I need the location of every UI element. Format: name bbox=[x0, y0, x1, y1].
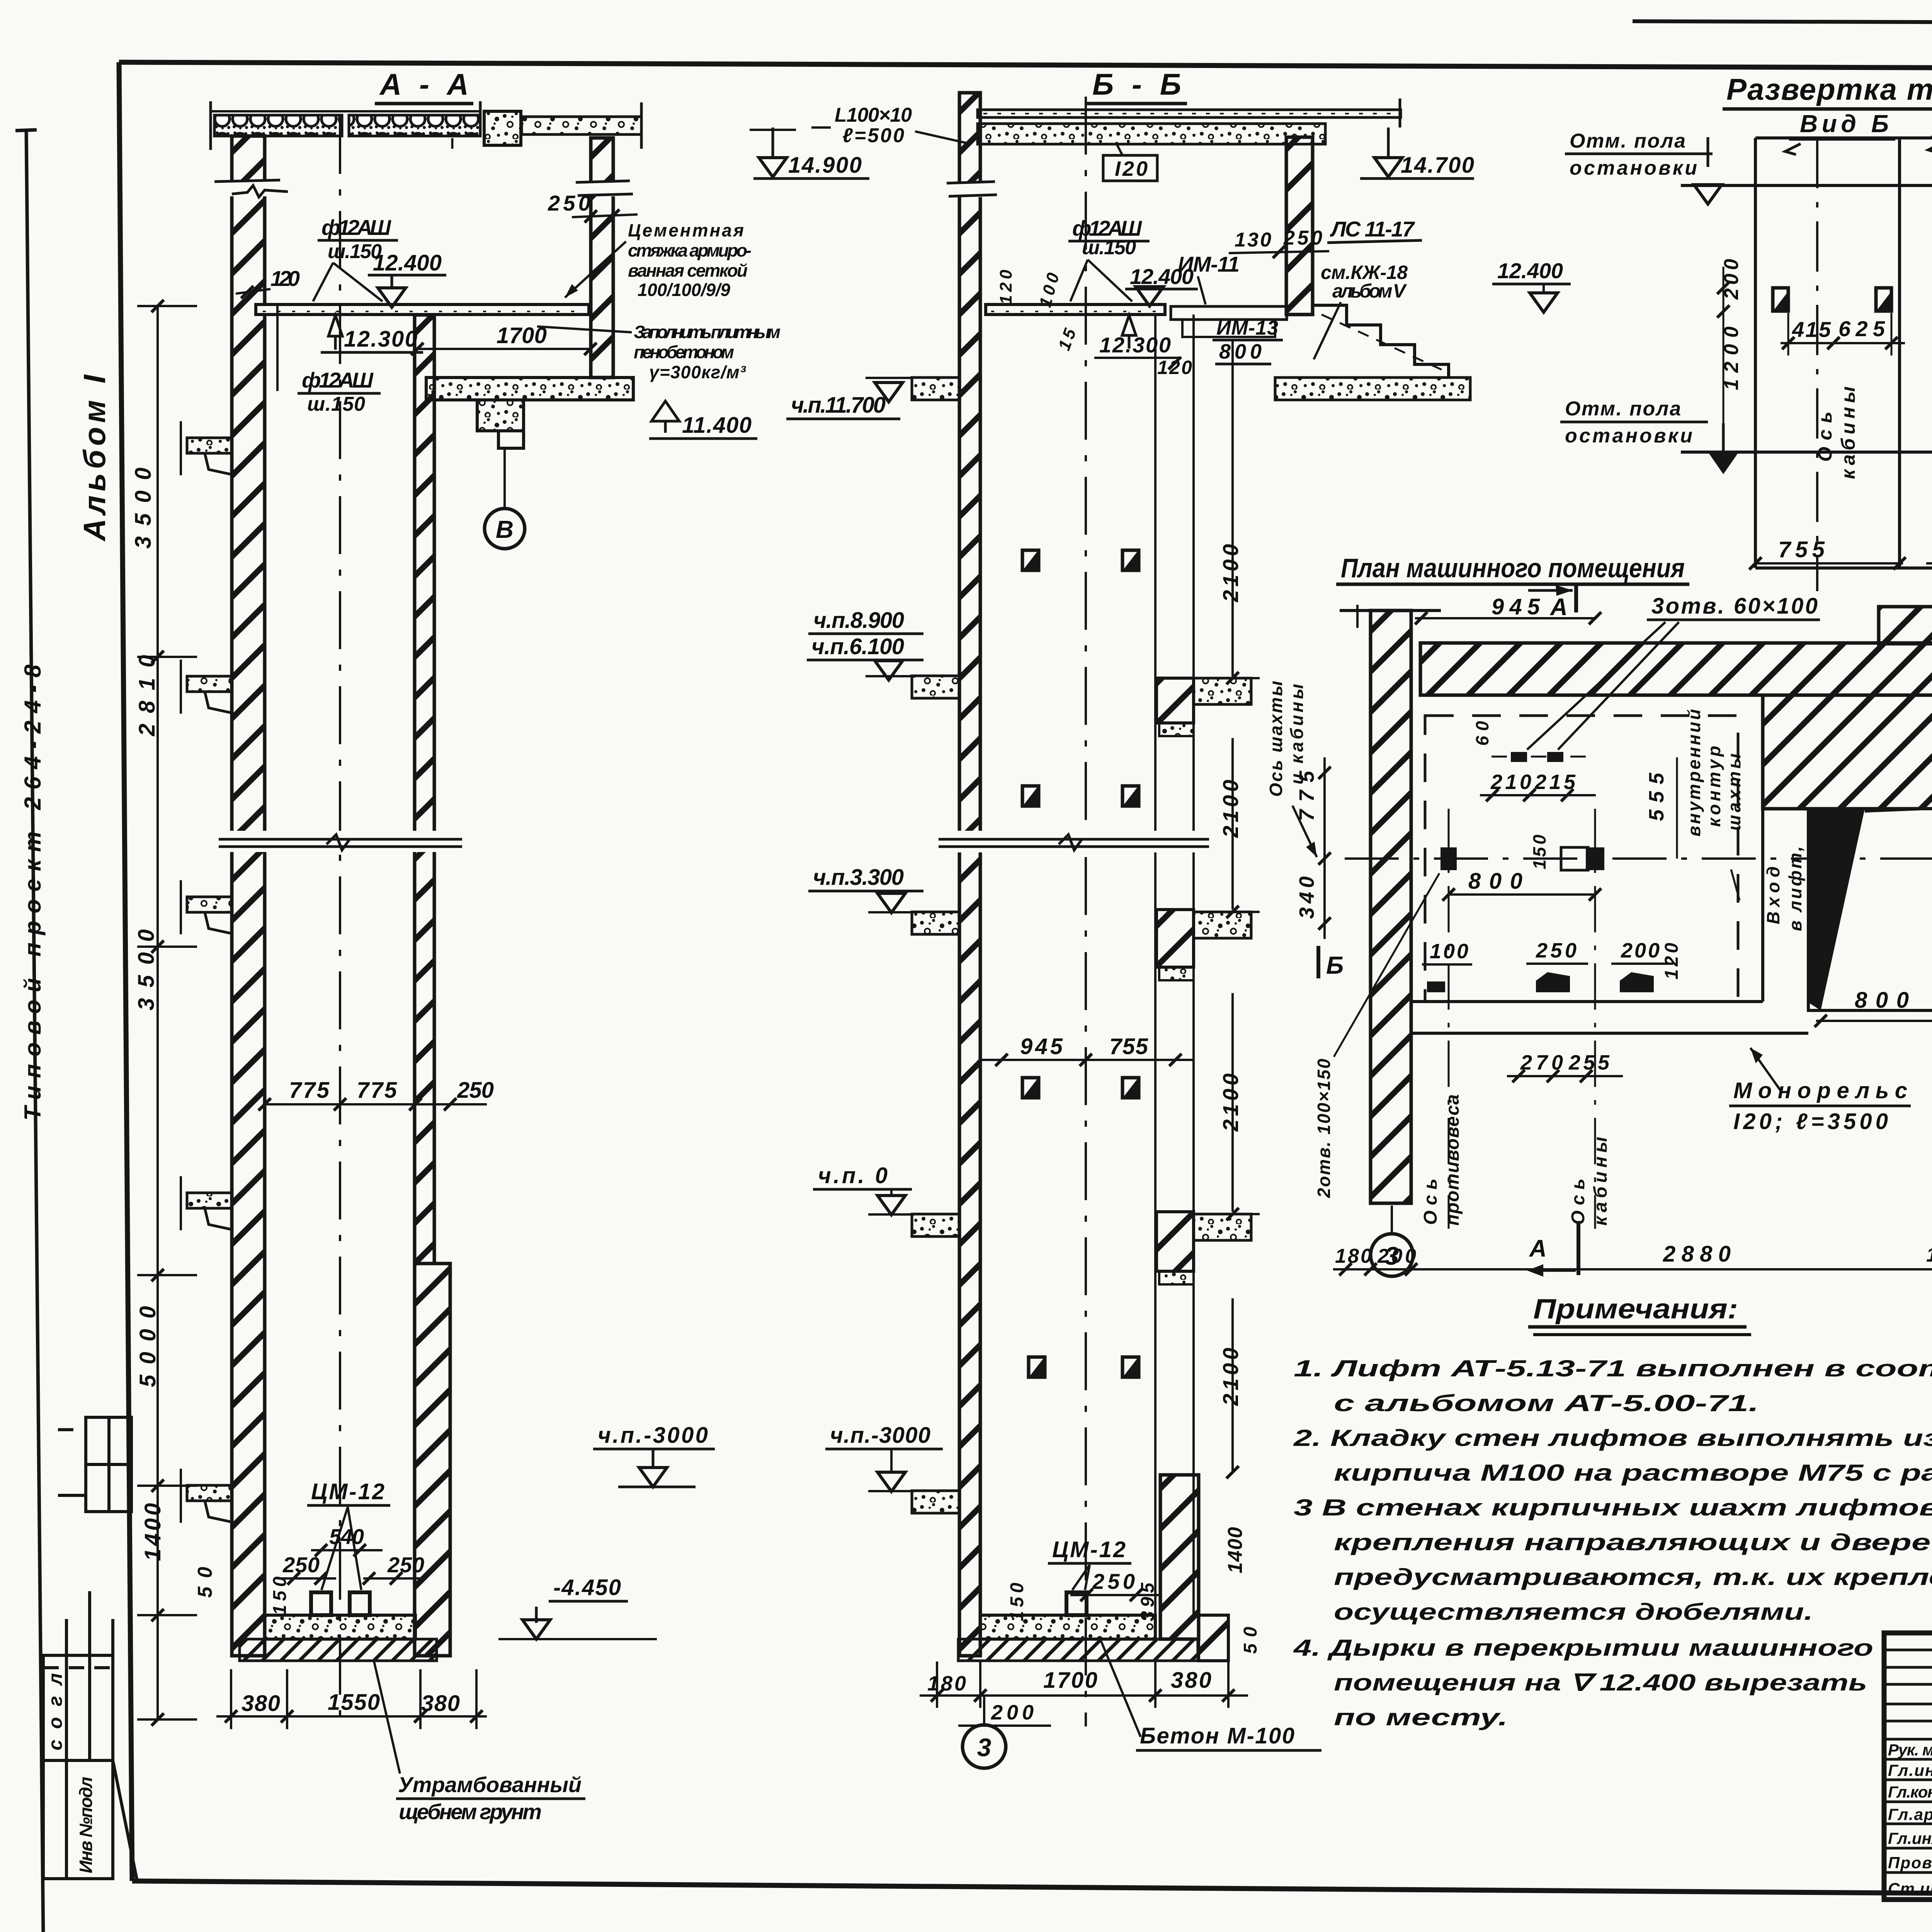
svg-text:120: 120 bbox=[1662, 943, 1682, 980]
svg-text:14.700: 14.700 bbox=[1401, 153, 1474, 178]
svg-text:альбом V: альбом V bbox=[1332, 280, 1407, 302]
svg-text:ч.п. 0: ч.п. 0 bbox=[818, 1163, 888, 1188]
frame bottom bbox=[132, 1881, 1932, 1899]
svg-text:Заполнить плитным: Заполнить плитным bbox=[634, 322, 781, 342]
machine room wall break bbox=[576, 181, 633, 196]
level 12.300 B-B bbox=[1122, 315, 1136, 335]
svg-text:Ст.инж.: Ст.инж. bbox=[1888, 1879, 1932, 1898]
machine room top wall bbox=[1420, 643, 1932, 695]
development bottom line bbox=[1755, 566, 1932, 570]
front wall segment 1 with slab bbox=[1156, 678, 1251, 736]
pit floor A-A bbox=[265, 1615, 415, 1639]
section A-A machine room right wall bbox=[591, 138, 613, 378]
svg-text:3: 3 bbox=[1385, 1242, 1399, 1270]
section A-A right shaft wall upper bbox=[415, 315, 434, 1264]
svg-text:945: 945 bbox=[1020, 1034, 1063, 1059]
svg-text:120: 120 bbox=[1157, 357, 1192, 378]
svg-text:415: 415 bbox=[1792, 317, 1831, 342]
paper top edge right bbox=[1633, 21, 1932, 24]
svg-text:120: 120 bbox=[270, 266, 300, 291]
section A-A hollow-core slab left bbox=[211, 101, 481, 150]
cabin axis vertical bbox=[1594, 809, 1596, 1229]
svg-text:130: 130 bbox=[1926, 1244, 1932, 1266]
svg-text:250: 250 bbox=[1092, 1569, 1135, 1594]
svg-text:и кабины: и кабины bbox=[1287, 684, 1307, 784]
svg-text:ф12АШ: ф12АШ bbox=[302, 368, 374, 392]
svg-text:шахты: шахты bbox=[1724, 753, 1744, 831]
svg-text:3 В стенах кирпичных шахт лифт: 3 В стенах кирпичных шахт лифтов ниши дл… bbox=[1294, 1495, 1932, 1520]
stamp box inv bbox=[43, 1760, 137, 1881]
paper left edge bbox=[26, 129, 43, 1932]
title block frame bbox=[1884, 1633, 1932, 1900]
svg-text:ш.150: ш.150 bbox=[1082, 236, 1136, 259]
section mark B left bbox=[1316, 946, 1320, 978]
B-B left wall break bbox=[947, 182, 997, 197]
tamped ground A-A bbox=[240, 1639, 437, 1661]
landing slab 11.700 bbox=[1275, 378, 1470, 400]
section A-A right shaft wall lower bbox=[415, 1264, 450, 1656]
svg-text:255: 255 bbox=[1568, 1051, 1610, 1074]
svg-text:внутренний: внутренний bbox=[1684, 709, 1704, 837]
top wall notch bbox=[1879, 607, 1932, 644]
note concrete M-100 bbox=[1101, 1641, 1141, 1737]
svg-text:1400: 1400 bbox=[1224, 1527, 1247, 1573]
svg-text:кирпича М100 на растворе М75 с: кирпича М100 на растворе М75 с разделкой… bbox=[1334, 1460, 1932, 1486]
shaft top wall block bbox=[1763, 695, 1932, 809]
svg-text:100/100/9/9: 100/100/9/9 bbox=[638, 280, 730, 300]
svg-text:755: 755 bbox=[1778, 537, 1825, 562]
svg-text:755: 755 bbox=[1109, 1034, 1148, 1059]
axis bubble 3 machine plan bbox=[1371, 1234, 1413, 1276]
svg-text:L100×10: L100×10 bbox=[835, 104, 912, 126]
svg-text:ш.150: ш.150 bbox=[307, 393, 365, 415]
axis bubble 3 B-B bbox=[983, 1696, 985, 1724]
svg-text:130: 130 bbox=[1235, 229, 1271, 251]
shaft section break B-B bbox=[937, 831, 1209, 852]
level 14.700 bbox=[1387, 128, 1390, 158]
svg-text:ч.п.-3000: ч.п.-3000 bbox=[830, 1423, 930, 1448]
svg-text:Ось: Ось bbox=[1568, 1179, 1588, 1225]
svg-text:ч.п.11.700: ч.п.11.700 bbox=[791, 393, 886, 418]
svg-text:775: 775 bbox=[289, 1078, 330, 1103]
B-B anchor post bbox=[1066, 1592, 1087, 1615]
horizontal shaft axis bbox=[1345, 857, 1932, 860]
panel edge lines bbox=[1755, 138, 1932, 568]
svg-text:14.900: 14.900 bbox=[788, 153, 862, 178]
machine room bottom wall bbox=[1411, 1000, 1763, 1003]
svg-text:3: 3 bbox=[977, 1733, 992, 1762]
svg-text:3отв. 60×100: 3отв. 60×100 bbox=[1651, 594, 1818, 619]
svg-text:Ось шахты: Ось шахты bbox=[1266, 681, 1286, 797]
svg-text:Б: Б bbox=[1326, 951, 1344, 979]
svg-text:предусматриваются, т.к. их кре: предусматриваются, т.к. их крепление к с… bbox=[1334, 1564, 1932, 1590]
svg-text:остановки: остановки bbox=[1565, 425, 1692, 447]
svg-text:200: 200 bbox=[991, 1701, 1034, 1724]
svg-text:ИМ-13: ИМ-13 bbox=[1216, 317, 1278, 339]
svg-text:Инв №подл: Инв №подл bbox=[76, 1777, 96, 1873]
floor level line upper bbox=[1681, 184, 1932, 187]
svg-text:945: 945 bbox=[1492, 594, 1540, 619]
svg-text:395: 395 bbox=[1138, 1582, 1158, 1621]
svg-text:Ось: Ось bbox=[1420, 1179, 1441, 1225]
svg-text:ч.п.-3000: ч.п.-3000 bbox=[598, 1423, 708, 1448]
B-B tamped ground bbox=[958, 1639, 1198, 1661]
door leaf wedge plan bbox=[1808, 809, 1865, 1010]
svg-text:I: I bbox=[450, 135, 454, 152]
svg-text:150: 150 bbox=[270, 1577, 290, 1615]
front wall segment 3 with slab bbox=[1156, 1212, 1251, 1284]
svg-text:12.400: 12.400 bbox=[1497, 259, 1563, 283]
svg-text:625: 625 bbox=[1838, 316, 1885, 341]
svg-text:План машинного помещения: План машинного помещения bbox=[1341, 553, 1685, 583]
B-B bottom dims bbox=[920, 1662, 1248, 1708]
level 14.900 bbox=[772, 128, 774, 158]
left dimension chain bbox=[137, 306, 197, 1719]
svg-text:775: 775 bbox=[357, 1078, 397, 1103]
svg-text:180: 180 bbox=[927, 1672, 966, 1695]
bottom dim 380 1550 380 bbox=[216, 1669, 487, 1729]
svg-text:с альбомом АТ-5.00-71.: с альбомом АТ-5.00-71. bbox=[1334, 1390, 1759, 1416]
svg-text:осуществляется дюбелями.: осуществляется дюбелями. bbox=[1334, 1599, 1813, 1625]
svg-text:Монорельс: Монорельс bbox=[1733, 1078, 1907, 1103]
section A-A wall break mark top bbox=[214, 180, 288, 197]
front wall segment 2 with slab bbox=[1156, 910, 1251, 980]
svg-text:11.400: 11.400 bbox=[682, 413, 752, 438]
svg-text:ЛС 11-17: ЛС 11-17 bbox=[1330, 217, 1415, 241]
frame top bbox=[119, 62, 1932, 70]
svg-text:Вид Б: Вид Б bbox=[1800, 110, 1889, 138]
floor level line lower bbox=[1681, 451, 1932, 454]
svg-text:180: 180 bbox=[1335, 1245, 1372, 1267]
niches view B bbox=[1773, 288, 1788, 311]
svg-text:380: 380 bbox=[1171, 1668, 1211, 1693]
door height dims 2100 bbox=[1206, 340, 1260, 1472]
svg-text:стяжка армиро-: стяжка армиро- bbox=[628, 240, 752, 260]
node B circle bbox=[503, 449, 506, 509]
development top line bbox=[1755, 136, 1932, 139]
svg-text:4. Дырки в перекрытии машинног: 4. Дырки в перекрытии машинного bbox=[1293, 1635, 1873, 1661]
svg-text:12.400: 12.400 bbox=[373, 250, 442, 276]
svg-text:340: 340 bbox=[1295, 876, 1318, 919]
svg-text:Бетон М-100: Бетон М-100 bbox=[1140, 1723, 1294, 1748]
cabin axes dash-dot bbox=[1817, 138, 1932, 591]
counterweight axis vertical bbox=[1448, 809, 1450, 1229]
svg-text:А: А bbox=[1529, 1235, 1547, 1262]
svg-text:ℓ=500: ℓ=500 bbox=[842, 124, 904, 147]
svg-text:ч.п.6.100: ч.п.6.100 bbox=[811, 634, 904, 659]
B-B pit floor bbox=[980, 1615, 1155, 1639]
svg-text:2. Кладку стен лифтов выполнят: 2. Кладку стен лифтов выполнять из полно… bbox=[1293, 1425, 1932, 1451]
svg-text:противовеса: противовеса bbox=[1442, 1094, 1463, 1226]
stamp box upper left bbox=[58, 1417, 131, 1512]
B-B roof slab thin bbox=[978, 99, 1401, 128]
machine floor slab B-B bbox=[986, 304, 1165, 315]
svg-text:100: 100 bbox=[1430, 940, 1468, 963]
svg-text:Рук. маст: Рук. маст bbox=[1888, 1741, 1932, 1759]
svg-text:250: 250 bbox=[282, 1553, 320, 1577]
svg-text:помещения на ∇ 12.400 вырезать: помещения на ∇ 12.400 вырезать bbox=[1334, 1670, 1867, 1696]
svg-text:150: 150 bbox=[1529, 835, 1549, 869]
svg-text:кабины: кабины bbox=[1837, 386, 1859, 479]
frame left bbox=[119, 62, 132, 1881]
svg-text:А: А bbox=[1549, 594, 1568, 621]
svg-text:200: 200 bbox=[1621, 939, 1660, 962]
svg-text:120: 120 bbox=[997, 269, 1015, 304]
level 11.400 bbox=[651, 401, 679, 421]
svg-text:Гл.арх.пр.: Гл.арх.пр. bbox=[1888, 1805, 1932, 1823]
svg-text:Гл.инж.м.: Гл.инж.м. bbox=[1888, 1761, 1932, 1779]
svg-text:Цементная: Цементная bbox=[628, 220, 744, 240]
svg-text:ванная сеткой: ванная сеткой bbox=[628, 260, 748, 281]
svg-text:ф12АШ: ф12АШ bbox=[321, 215, 391, 240]
svg-text:380: 380 bbox=[241, 1691, 280, 1716]
svg-text:250: 250 bbox=[1283, 227, 1322, 249]
svg-text:Ось: Ось bbox=[1814, 412, 1836, 462]
svg-text:Отм. пола: Отм. пола bbox=[1565, 398, 1681, 420]
svg-text:Б - Б: Б - Б bbox=[1092, 67, 1181, 101]
svg-text:Гл.констр.: Гл.констр. bbox=[1888, 1783, 1932, 1801]
monorail symbols bbox=[1536, 981, 1570, 992]
svg-text:1. Лифт АТ-5.13-71 выполнен в: 1. Лифт АТ-5.13-71 выполнен в соответств… bbox=[1294, 1355, 1932, 1381]
niche squares B-B bbox=[1022, 550, 1139, 1377]
B-B right wall top bbox=[1286, 137, 1313, 315]
machine plan bottom dims bbox=[1333, 1268, 1932, 1270]
section A-A anchor block on slab bbox=[484, 111, 521, 145]
hole anchors bbox=[1511, 752, 1527, 762]
floor slab 11.400 bbox=[426, 378, 633, 400]
svg-text:пенобетоном: пенобетоном bbox=[634, 342, 734, 362]
label monorail bbox=[1750, 1048, 1781, 1092]
svg-text:Утрамбованный: Утрамбованный bbox=[398, 1772, 582, 1797]
B-B left shaft wall bbox=[959, 93, 980, 1656]
svg-text:2отв. 100×150: 2отв. 100×150 bbox=[1314, 1059, 1334, 1198]
section A-A left shaft wall bbox=[232, 136, 265, 1656]
corbel IM-13 plate bbox=[1171, 306, 1287, 320]
stair flight LS11-17 bbox=[1313, 305, 1449, 378]
exterior slabs left B-B bbox=[912, 378, 959, 1513]
shaft section break A-A bbox=[216, 831, 468, 852]
inner shaft contour dashed bbox=[1425, 716, 1738, 1002]
svg-text:остановки: остановки bbox=[1570, 157, 1697, 179]
svg-text:540: 540 bbox=[329, 1524, 364, 1549]
svg-text:В: В bbox=[496, 515, 514, 543]
stamp box sogl bbox=[43, 1591, 113, 1760]
shaft opening bbox=[1808, 809, 1932, 1010]
svg-text:Примечания:: Примечания: bbox=[1533, 1294, 1738, 1325]
exterior floor slabs A-A bbox=[181, 421, 232, 475]
svg-text:12.300: 12.300 bbox=[344, 327, 417, 352]
svg-text:Гл.инж. пр.: Гл.инж. пр. bbox=[1888, 1829, 1932, 1847]
B-B ceiling slab bbox=[978, 124, 1325, 144]
axis of cabin A-A bbox=[339, 116, 341, 1726]
svg-text:γ=300кг/м³: γ=300кг/м³ bbox=[649, 362, 747, 382]
svg-text:в лифт,: в лифт, bbox=[1785, 846, 1805, 931]
svg-text:250: 250 bbox=[457, 1078, 494, 1103]
beam under slab 11.400 bbox=[477, 400, 524, 431]
B-B axis of shaft bbox=[1085, 97, 1087, 1726]
I20 beam tag bbox=[1103, 155, 1157, 181]
svg-text:Провер.: Провер. bbox=[1888, 1854, 1932, 1872]
cabin rail blocks bbox=[1561, 847, 1588, 870]
machine room floor slab 12.400 bbox=[256, 304, 589, 315]
svg-text:1550: 1550 bbox=[328, 1690, 380, 1715]
level 12.300 bbox=[328, 315, 342, 336]
B-B front wall lines bbox=[1154, 315, 1156, 1615]
svg-text:А - А: А - А bbox=[379, 67, 469, 101]
svg-text:щебнем грунт: щебнем грунт bbox=[399, 1799, 542, 1824]
note tamped gravel soil bbox=[374, 1662, 400, 1774]
counterweight rail block bbox=[1440, 847, 1457, 870]
svg-text:ч.п.3.300: ч.п.3.300 bbox=[813, 865, 904, 890]
svg-text:250: 250 bbox=[548, 191, 590, 215]
machine room left wall bbox=[1371, 611, 1411, 1203]
svg-text:Отм. пола: Отм. пола bbox=[1570, 130, 1685, 152]
svg-text:ч.п.8.900: ч.п.8.900 bbox=[813, 608, 904, 633]
svg-text:Развертка типового этажа: Развертка типового этажа bbox=[1726, 72, 1932, 106]
section A-A right ceiling slab bbox=[522, 102, 641, 149]
svg-text:кабины: кабины bbox=[1590, 1137, 1611, 1226]
svg-text:I20: I20 bbox=[1115, 157, 1148, 180]
svg-text:12.300: 12.300 bbox=[1099, 333, 1171, 357]
left rotated dims 775 340 bbox=[1323, 757, 1326, 939]
svg-text:555: 555 bbox=[1645, 772, 1668, 821]
svg-text:215: 215 bbox=[1534, 770, 1576, 794]
svg-text:по месту.: по месту. bbox=[1334, 1704, 1508, 1730]
svg-text:250: 250 bbox=[1536, 939, 1577, 962]
svg-text:800: 800 bbox=[1219, 340, 1262, 363]
svg-text:800: 800 bbox=[1855, 988, 1909, 1013]
svg-text:150: 150 bbox=[1007, 1583, 1027, 1621]
anchor posts CM-12 bbox=[311, 1592, 331, 1615]
B-B right wall lower bbox=[1160, 1475, 1199, 1639]
svg-text:800: 800 bbox=[1468, 869, 1522, 894]
svg-text:крепления направляющих и двере: крепления направляющих и дверей шахты, н… bbox=[1334, 1529, 1932, 1555]
svg-text:250: 250 bbox=[387, 1553, 424, 1577]
svg-text:ИМ-11: ИМ-11 bbox=[1178, 252, 1240, 276]
svg-text:380: 380 bbox=[421, 1691, 460, 1716]
svg-text:-4.450: -4.450 bbox=[553, 1575, 621, 1600]
